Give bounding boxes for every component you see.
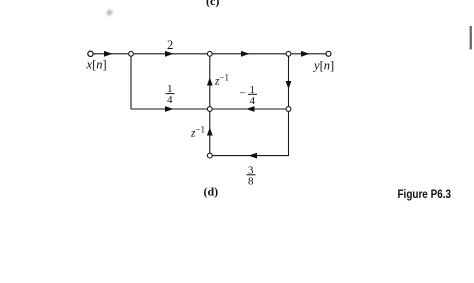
input node x[n] [88,51,93,56]
svg-text:Figure P6.3: Figure P6.3 [398,187,452,201]
wire bottom row right to N6 [212,155,289,157]
arrowhead right [165,106,174,112]
node N2 [207,51,212,56]
page edge mark [470,26,472,50]
delay z^-1 label (upper) [214,73,229,88]
arrowhead left [249,153,258,159]
arrowhead right [104,51,113,57]
wire input to node N1 [93,53,128,55]
wire N3 to output [291,53,326,55]
arrowhead right [301,51,310,57]
arrowhead left [246,106,255,112]
gain 1/4 label [166,83,175,106]
x[n] label [86,57,107,71]
svg-text:4: 4 [250,95,256,107]
svg-text:y[n]: y[n] [312,58,334,72]
svg-text:8: 8 [248,175,254,187]
y[n] label [312,58,334,72]
output node y[n] [326,51,331,56]
svg-text:−: − [240,88,246,100]
wire mid row left to node N4 [131,108,207,110]
arrowhead right [241,51,250,57]
node N5 [286,107,291,112]
wire N4 up to N2 (delay branch) [209,56,211,106]
smudge artifact [107,10,113,16]
wire N2 to N3 [212,53,286,55]
label (d) caption [204,185,219,199]
svg-text:(d): (d) [204,185,219,199]
label (c) top caption (clipped at top edge) [206,0,219,8]
wire N6 up to N4 (delay branch lower) [209,111,211,153]
arrowhead right [165,51,174,57]
node N6 [207,153,212,158]
svg-text:z−1: z−1 [214,73,229,88]
node N3 [286,51,291,56]
svg-text:z−1: z−1 [190,125,205,140]
wire N5 to N4 (feedback) [212,108,286,110]
wire N1 to N2 [134,53,208,55]
gain 2 label [167,38,173,52]
svg-text:(c): (c) [206,0,219,8]
wire N3 down to N5 [288,56,290,106]
delay z^-1 label (lower) [190,125,205,140]
gain -1/4 label [240,84,258,107]
arrowhead down [286,81,292,89]
node N4 [207,107,212,112]
arrowhead up [207,78,213,86]
wire N1 down to mid row [130,56,132,109]
svg-text:2: 2 [167,38,173,52]
Figure P6.3 caption [398,187,452,201]
node N1 [129,51,134,56]
gain 3/8 label [247,165,256,188]
wire N5 down to bottom corner [288,111,290,155]
arrowhead up [207,128,213,136]
svg-text:4: 4 [167,94,173,106]
svg-text:x[n]: x[n] [86,57,107,71]
